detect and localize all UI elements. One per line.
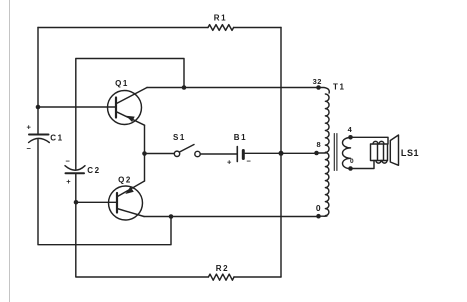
wire secondary bottom to speaker	[351, 161, 375, 169]
svg-text:8: 8	[316, 140, 321, 149]
transformer T1 primary lower	[324, 153, 329, 217]
wire Q2 base	[76, 201, 117, 203]
wire Q2 collector to T1 tap 0	[144, 216, 319, 218]
node C1 path to Q2 collector	[169, 214, 174, 219]
svg-text:−: −	[66, 157, 71, 166]
wire Q1 base	[38, 106, 116, 108]
svg-text:−: −	[247, 157, 252, 166]
node supply bus junction	[279, 151, 284, 156]
capacitor C2	[65, 166, 85, 174]
svg-text:+: +	[27, 122, 32, 131]
wire emitter junction to switch	[145, 153, 175, 155]
node base Q1 junction	[36, 105, 41, 110]
loudspeaker LS1 horn	[390, 135, 398, 165]
transformer T1 primary upper	[319, 88, 330, 153]
svg-text:R2: R2	[216, 264, 229, 273]
svg-text:C1: C1	[50, 133, 63, 142]
svg-text:0: 0	[350, 158, 354, 165]
wire bottom rail right of R2	[234, 276, 281, 278]
svg-text:C2: C2	[87, 166, 100, 175]
svg-text:T1: T1	[333, 82, 346, 91]
battery B1	[237, 147, 243, 162]
node Q2 base junction	[74, 200, 79, 205]
transistor Q1	[108, 88, 148, 126]
wire switch to battery	[200, 153, 236, 155]
wire C2 bottom rail to R2	[76, 174, 209, 277]
node tap 32	[316, 85, 321, 90]
wire Q1 collector to T1 tap 32	[147, 87, 319, 89]
svg-text:−: −	[27, 144, 32, 153]
wire left rail lower + bottom jog to Q2 collector	[38, 140, 171, 245]
svg-text:Q2: Q2	[118, 175, 132, 184]
node secondary tap 4	[348, 135, 353, 140]
svg-text:4: 4	[348, 125, 353, 134]
node tap 0	[316, 214, 321, 219]
svg-text:Q1: Q1	[115, 79, 129, 88]
wire C2 top lead / coupling box	[76, 59, 184, 170]
svg-text:B1: B1	[234, 133, 247, 142]
loudspeaker LS1 voice coil	[371, 141, 388, 163]
transformer T1 core	[334, 134, 337, 171]
page edge artifact	[9, 0, 11, 302]
svg-text:S1: S1	[173, 133, 186, 142]
wire secondary top to speaker	[351, 137, 389, 144]
svg-text:LS1: LS1	[401, 148, 419, 158]
wire left rail upper	[37, 28, 39, 134]
node C2 to Q1 collector	[182, 85, 187, 90]
resistor R2	[208, 274, 234, 280]
wire Q1 emitter / Q2 emitter vertical	[144, 125, 146, 181]
switch S1	[174, 145, 200, 157]
svg-text:0: 0	[316, 203, 321, 213]
wire battery to T1 tap 8	[245, 152, 317, 154]
capacitor C1	[29, 135, 50, 143]
node emitter junction	[142, 151, 147, 156]
transistor Q2	[109, 181, 145, 220]
node secondary tap 0	[348, 166, 353, 171]
wire top rail right of R1	[234, 27, 281, 29]
node tap 8	[314, 151, 319, 156]
wire tap 0	[319, 215, 326, 217]
svg-text:R1: R1	[214, 14, 227, 23]
transformer T1 secondary	[343, 138, 351, 169]
wire right vertical bus	[280, 28, 282, 278]
wire top rail left of R1	[38, 27, 208, 29]
svg-text:+: +	[66, 177, 71, 186]
wire tap 8 into coil	[317, 152, 326, 154]
resistor R1	[208, 25, 234, 31]
svg-text:+: +	[227, 158, 232, 167]
svg-text:32: 32	[313, 77, 322, 86]
